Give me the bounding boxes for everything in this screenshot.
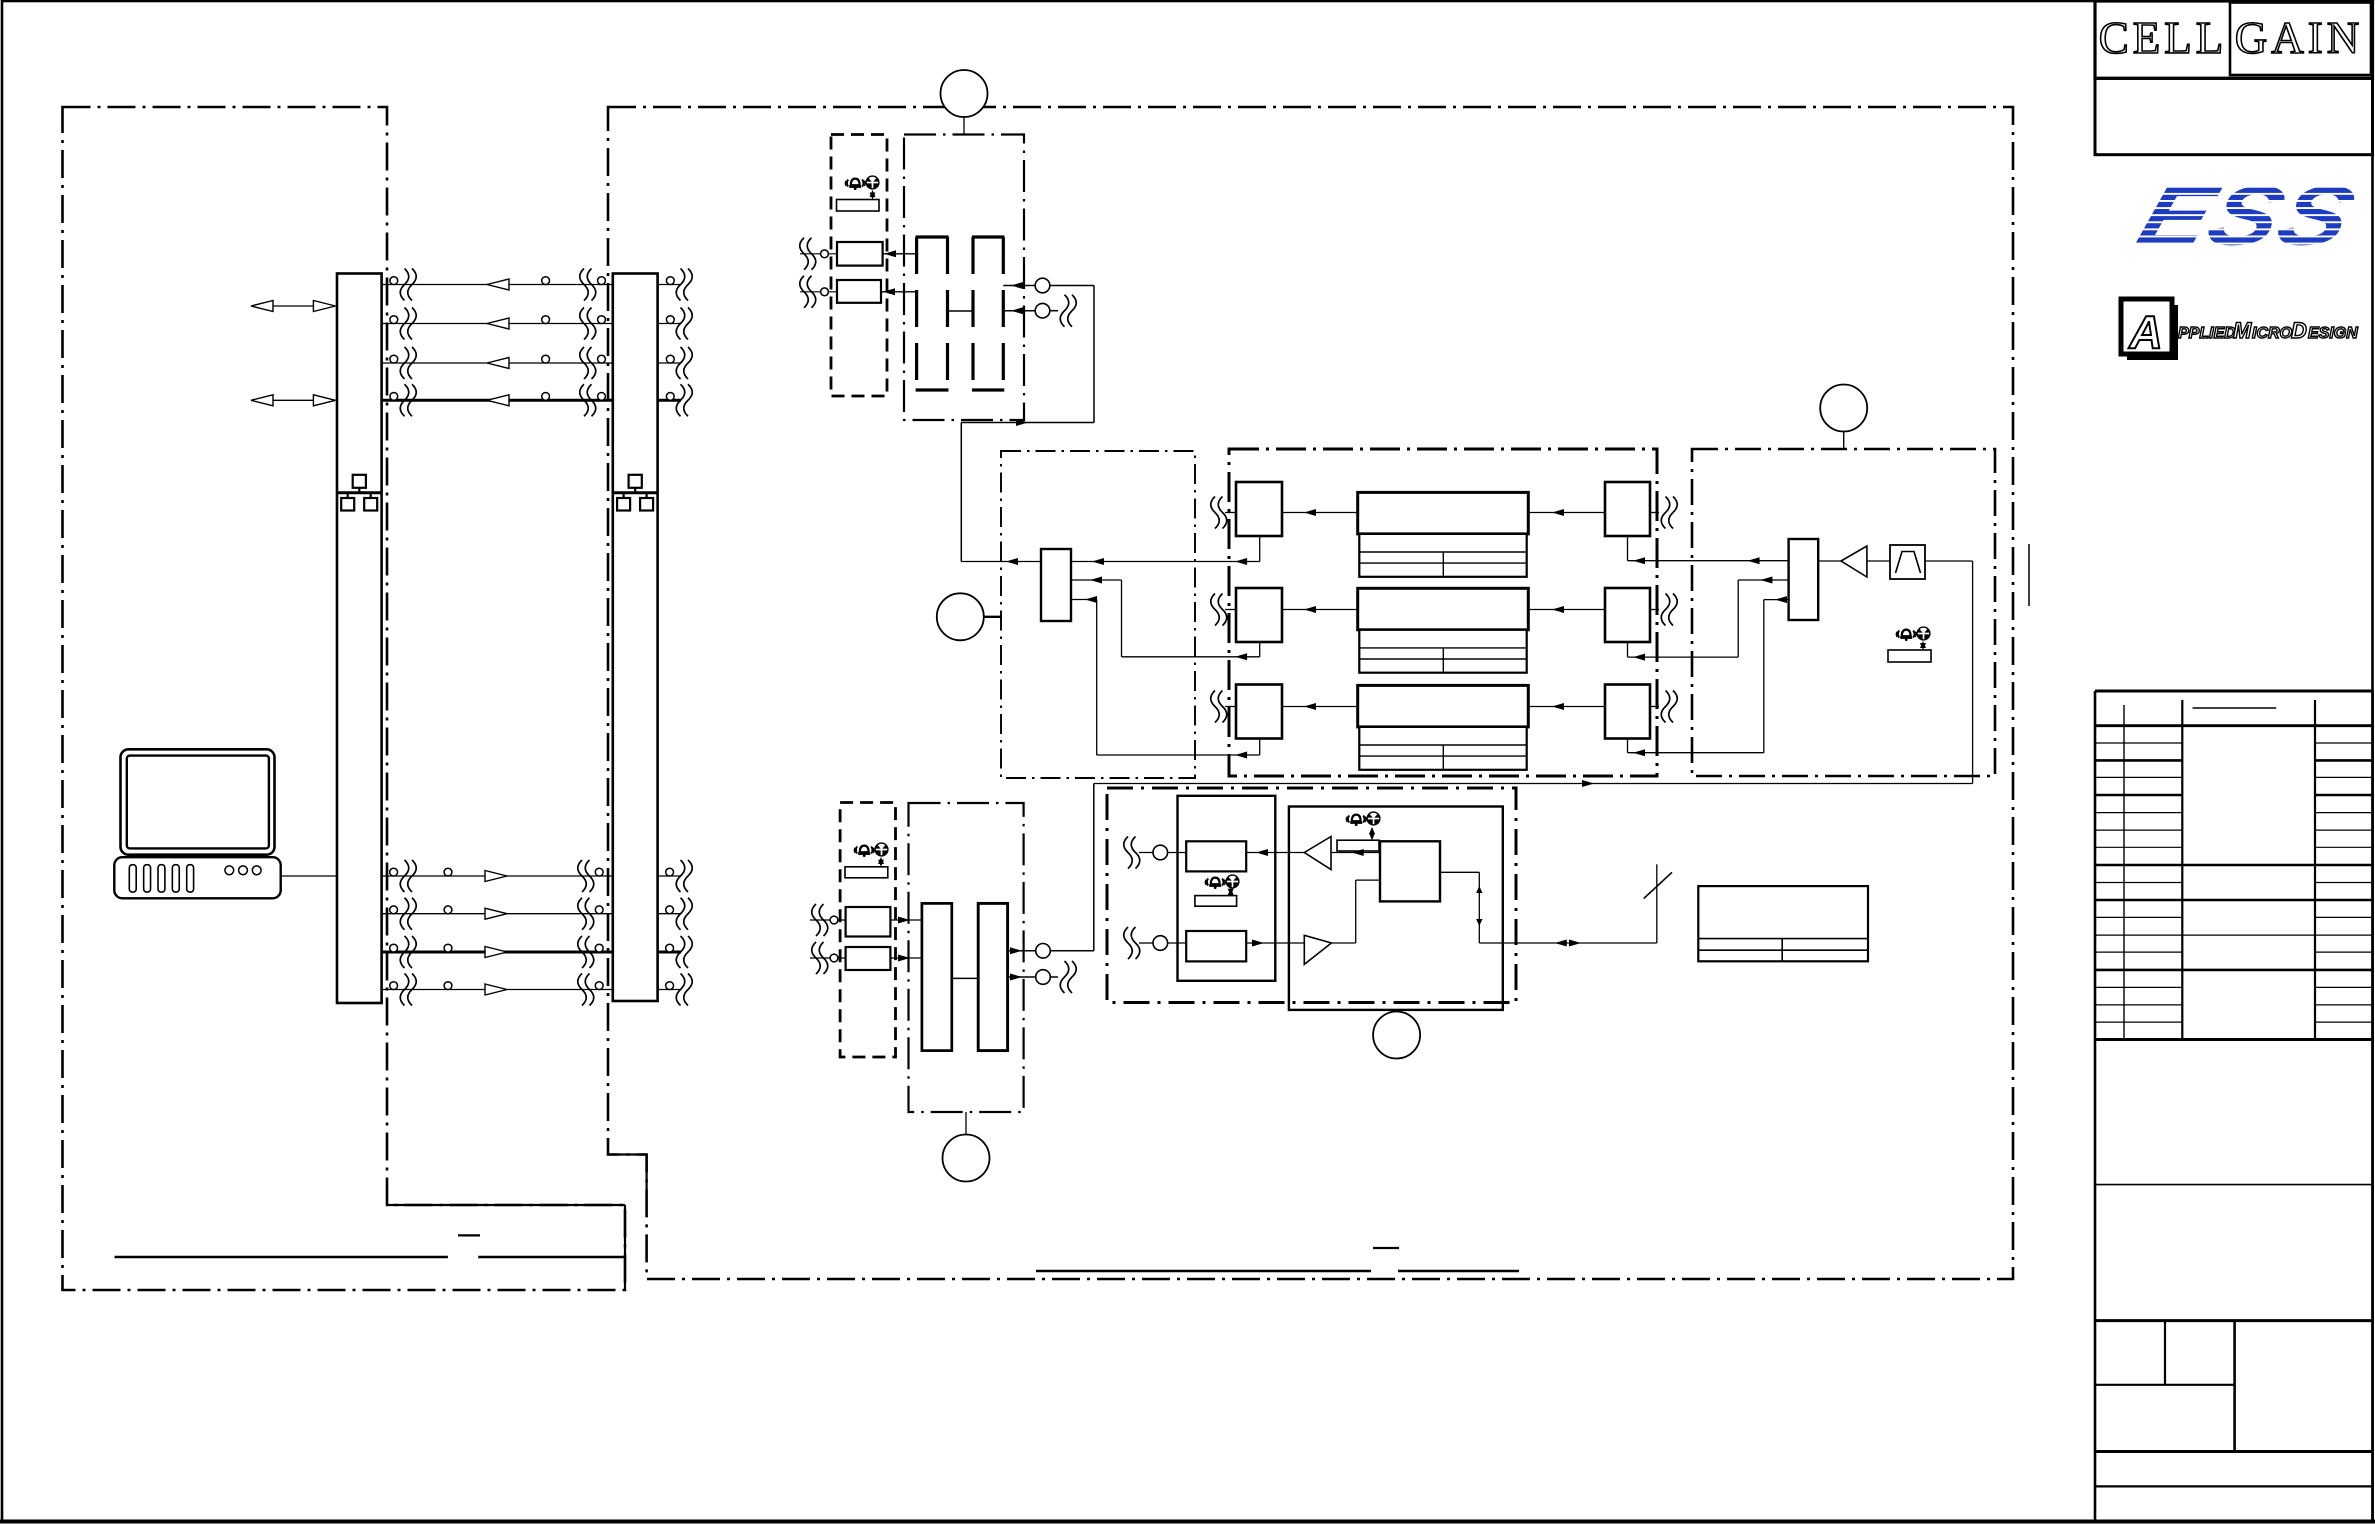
svg-text:D: D: [2291, 318, 2307, 343]
svg-text:ICRO: ICRO: [2252, 325, 2293, 342]
svg-text:A: A: [2128, 306, 2162, 358]
svg-text:ESIGN: ESIGN: [2308, 325, 2358, 342]
svg-text:CELL: CELL: [2099, 13, 2227, 63]
svg-text:GAIN: GAIN: [2235, 13, 2363, 63]
svg-text:ESS: ESS: [2127, 169, 2366, 263]
svg-text:PPLIED: PPLIED: [2178, 325, 2236, 342]
svg-text:M: M: [2233, 318, 2252, 343]
